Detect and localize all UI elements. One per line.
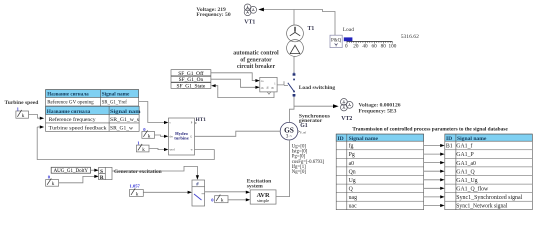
slider thumb xyxy=(344,37,353,41)
wire reset constant to R input xyxy=(59,176,97,182)
svg-text:Turbine speed: Turbine speed xyxy=(5,100,40,106)
svg-text:Название сигнала: Название сигнала xyxy=(47,109,91,115)
svg-text:GS: GS xyxy=(284,126,294,135)
wire bus top to T1 xyxy=(293,10,295,26)
svg-text:80: 80 xyxy=(381,44,387,50)
svg-text:GA1_a0: GA1_a0 xyxy=(456,161,476,167)
text Excitation system xyxy=(247,178,272,189)
svg-text:GA1_f: GA1_f xyxy=(456,143,472,150)
signal table: Reference GV opening xyxy=(46,90,139,106)
bottom notch xyxy=(267,92,270,94)
svg-text:Turbine speed feedback: Turbine speed feedback xyxy=(49,124,107,131)
svg-text:Load switching: Load switching xyxy=(299,85,336,91)
svg-text:Signal nam: Signal nam xyxy=(110,109,141,115)
svg-text:5316.62: 5316.62 xyxy=(401,34,419,40)
GS port P_ref xyxy=(298,131,306,135)
load block P&Q xyxy=(330,35,342,47)
svg-text:P_ref: P_ref xyxy=(300,132,306,135)
svg-text:3 ~: 3 ~ xyxy=(286,135,293,140)
AVR block xyxy=(250,190,276,204)
svg-text:wref: wref xyxy=(170,149,175,152)
wire T1 to breaker xyxy=(293,56,295,72)
wire SF_G1_On to breaker control input 2 xyxy=(211,79,259,87)
svg-text:20: 20 xyxy=(353,44,359,50)
HT1 port P stub xyxy=(195,122,197,124)
wire breaker state to SF_G1_State xyxy=(213,86,274,98)
svg-text:P&Q: P&Q xyxy=(331,39,342,44)
text Synchronous generator xyxy=(299,113,331,124)
wire AVR output to GS excitation xyxy=(276,140,290,197)
meter VT2 readout text xyxy=(359,102,401,114)
svg-text:k: k xyxy=(148,133,151,139)
constant block k (turbine speed) xyxy=(16,110,29,119)
svg-text:k: k xyxy=(221,198,224,204)
load switching breaker symbol xyxy=(288,72,294,97)
switch blade xyxy=(194,194,202,200)
meter VT1 readout text xyxy=(196,7,230,18)
svg-text:S: S xyxy=(100,169,103,175)
svg-text:R: R xyxy=(100,175,104,181)
svg-text:Transmission of controlled pro: Transmission of controlled process param… xyxy=(352,126,508,132)
wire bus to VT1 xyxy=(264,9,295,11)
svg-text:St: St xyxy=(266,86,270,89)
svg-text:k: k xyxy=(52,181,55,187)
svg-text:Qn: Qn xyxy=(349,169,356,175)
svg-text:Название сигнала: Название сигнала xyxy=(47,92,89,98)
svg-text:0: 0 xyxy=(345,44,348,50)
svg-text:Sync1_Network signal: Sync1_Network signal xyxy=(456,204,507,210)
GS state readout text xyxy=(292,145,325,176)
svg-text:Signal name: Signal name xyxy=(457,136,487,142)
svg-text:60: 60 xyxy=(372,44,378,50)
constant block k (reset) xyxy=(46,178,59,187)
wire SR output to excitation switch xyxy=(112,166,197,177)
svg-text:of generator: of generator xyxy=(240,57,272,63)
SR trigger block xyxy=(99,167,112,181)
wire bus to load block xyxy=(294,10,335,36)
wire HT1 G output to GS xyxy=(195,131,281,136)
svg-text:AUG_G1_DoltY: AUG_G1_DoltY xyxy=(54,169,89,174)
svg-text:Reference GV opening: Reference GV opening xyxy=(47,99,94,106)
svg-text:Signal name: Signal name xyxy=(349,136,379,142)
text automatic control of generator circuit breaker xyxy=(233,51,279,70)
svg-text:T1: T1 xyxy=(308,26,315,32)
svg-text:Ug: Ug xyxy=(349,178,356,184)
svg-text:SF_G1_State: SF_G1_State xyxy=(177,83,206,89)
svg-text:w: w xyxy=(191,149,193,152)
arrow into VT1 xyxy=(258,8,264,12)
svg-text:SR_G1_w: SR_G1_w xyxy=(110,125,134,131)
wire SR_G1_Yref to HT1 input s xyxy=(139,102,167,123)
svg-text:Pg: Pg xyxy=(349,152,355,158)
svg-text:co: co xyxy=(261,79,264,83)
wire turbine speed feedback loop into table xyxy=(37,127,214,160)
svg-text:dw: dw xyxy=(170,135,173,138)
T1 delta winding symbol xyxy=(290,45,300,53)
svg-text:Ng=[0]: Ng=[0] xyxy=(292,170,307,175)
svg-text:uac: uac xyxy=(349,204,357,210)
svg-text:k: k xyxy=(136,191,139,197)
svg-text:B: B xyxy=(270,87,274,89)
constant block k (AVR aux) xyxy=(215,195,228,204)
svg-text:Generator excitation: Generator excitation xyxy=(114,169,162,175)
svg-text:ID: ID xyxy=(337,136,343,142)
svg-text:cb: cb xyxy=(261,86,264,90)
svg-text:Signal name: Signal name xyxy=(102,92,130,98)
svg-text:G1: G1 xyxy=(300,123,308,129)
signal database table right xyxy=(445,134,533,210)
wire dw constant to HT1 xyxy=(155,135,167,136)
svg-text:VT2: VT2 xyxy=(341,116,352,122)
svg-text:100: 100 xyxy=(389,44,397,50)
wire turbine speed constant to Reference frequency row xyxy=(29,115,43,119)
wire SF_G1_Off to breaker control input 1 xyxy=(211,73,259,81)
signal boxes SF_G1_Off / SF_G1_On / SF_G1_State xyxy=(171,70,211,90)
voltage transformer VT1 xyxy=(244,4,256,16)
svg-text:GA1_Q_flow: GA1_Q_flow xyxy=(456,186,489,193)
table link arrows xyxy=(424,146,441,206)
svg-text:GA1_Q: GA1_Q xyxy=(456,169,475,175)
svg-text:k: k xyxy=(22,113,25,119)
svg-text:k: k xyxy=(142,147,145,153)
svg-text:SR_G1_w_s: SR_G1_w_s xyxy=(110,117,139,123)
svg-text:turbine: turbine xyxy=(174,136,189,141)
svg-text:SR_G1_Yref: SR_G1_Yref xyxy=(102,99,127,106)
svg-text:GA1_Ug: GA1_Ug xyxy=(456,178,477,184)
svg-text:ID: ID xyxy=(446,136,452,142)
excitation switch block xyxy=(192,180,205,206)
svg-text:system: system xyxy=(247,184,263,190)
svg-text:automatic control: automatic control xyxy=(233,51,279,57)
svg-text:40: 40 xyxy=(362,44,368,50)
load slider control xyxy=(344,37,397,49)
signal table: frequency / speed feedback xyxy=(46,106,141,131)
constant block k (wref) xyxy=(136,144,149,153)
wire excitation constant to switch xyxy=(143,191,189,193)
signal box AUG_G1_DoltY xyxy=(51,167,90,174)
wire wref constant to HT1 xyxy=(149,149,166,150)
svg-text:SF_G1_On: SF_G1_On xyxy=(179,77,204,83)
voltage transformer VT2 xyxy=(341,99,354,111)
svg-text:SF_G1_Off: SF_G1_Off xyxy=(178,70,204,77)
constant block k (1.057) xyxy=(130,188,144,197)
transformer T1 xyxy=(287,25,304,56)
wire excitation switch to AVR input 1 xyxy=(205,191,248,193)
svg-text:GA1_P: GA1_P xyxy=(456,152,473,158)
svg-text:Frequency: 5E3: Frequency: 5E3 xyxy=(359,108,397,114)
svg-text:fg: fg xyxy=(349,143,354,150)
breaker control block xyxy=(260,77,277,94)
signal database table left xyxy=(336,134,423,210)
constant block k (dw) xyxy=(142,130,155,139)
svg-text:B1: B1 xyxy=(446,144,453,150)
wire breaker control output to switch blade xyxy=(277,81,288,85)
svg-text:Frequency: 50: Frequency: 50 xyxy=(196,12,230,18)
svg-text:G: G xyxy=(190,135,192,138)
svg-text:uag: uag xyxy=(349,195,357,201)
wire breaker to bus junction and GS xyxy=(290,97,295,122)
svg-text:simple: simple xyxy=(257,198,269,203)
svg-text:Sync1_Synchronized signal: Sync1_Synchronized signal xyxy=(456,195,522,201)
T1 wye winding symbol xyxy=(294,27,296,32)
svg-text:VT1: VT1 xyxy=(244,20,255,26)
svg-text:s: s xyxy=(170,122,171,125)
wire bus junction to VT2 xyxy=(294,105,334,107)
svg-text:Load: Load xyxy=(343,27,355,33)
wire AUG box to S input xyxy=(91,169,97,171)
hydro turbine block HT1 xyxy=(169,118,197,155)
svg-text:a0: a0 xyxy=(349,161,355,167)
svg-text:circuit breaker: circuit breaker xyxy=(237,64,276,70)
svg-text:HT1: HT1 xyxy=(196,117,207,123)
svg-text:1.057: 1.057 xyxy=(130,184,141,189)
svg-text:Reference frequency: Reference frequency xyxy=(49,116,96,123)
wire AVR aux constant to AVR input 2 xyxy=(228,199,248,201)
synchronous generator GS xyxy=(280,122,298,140)
